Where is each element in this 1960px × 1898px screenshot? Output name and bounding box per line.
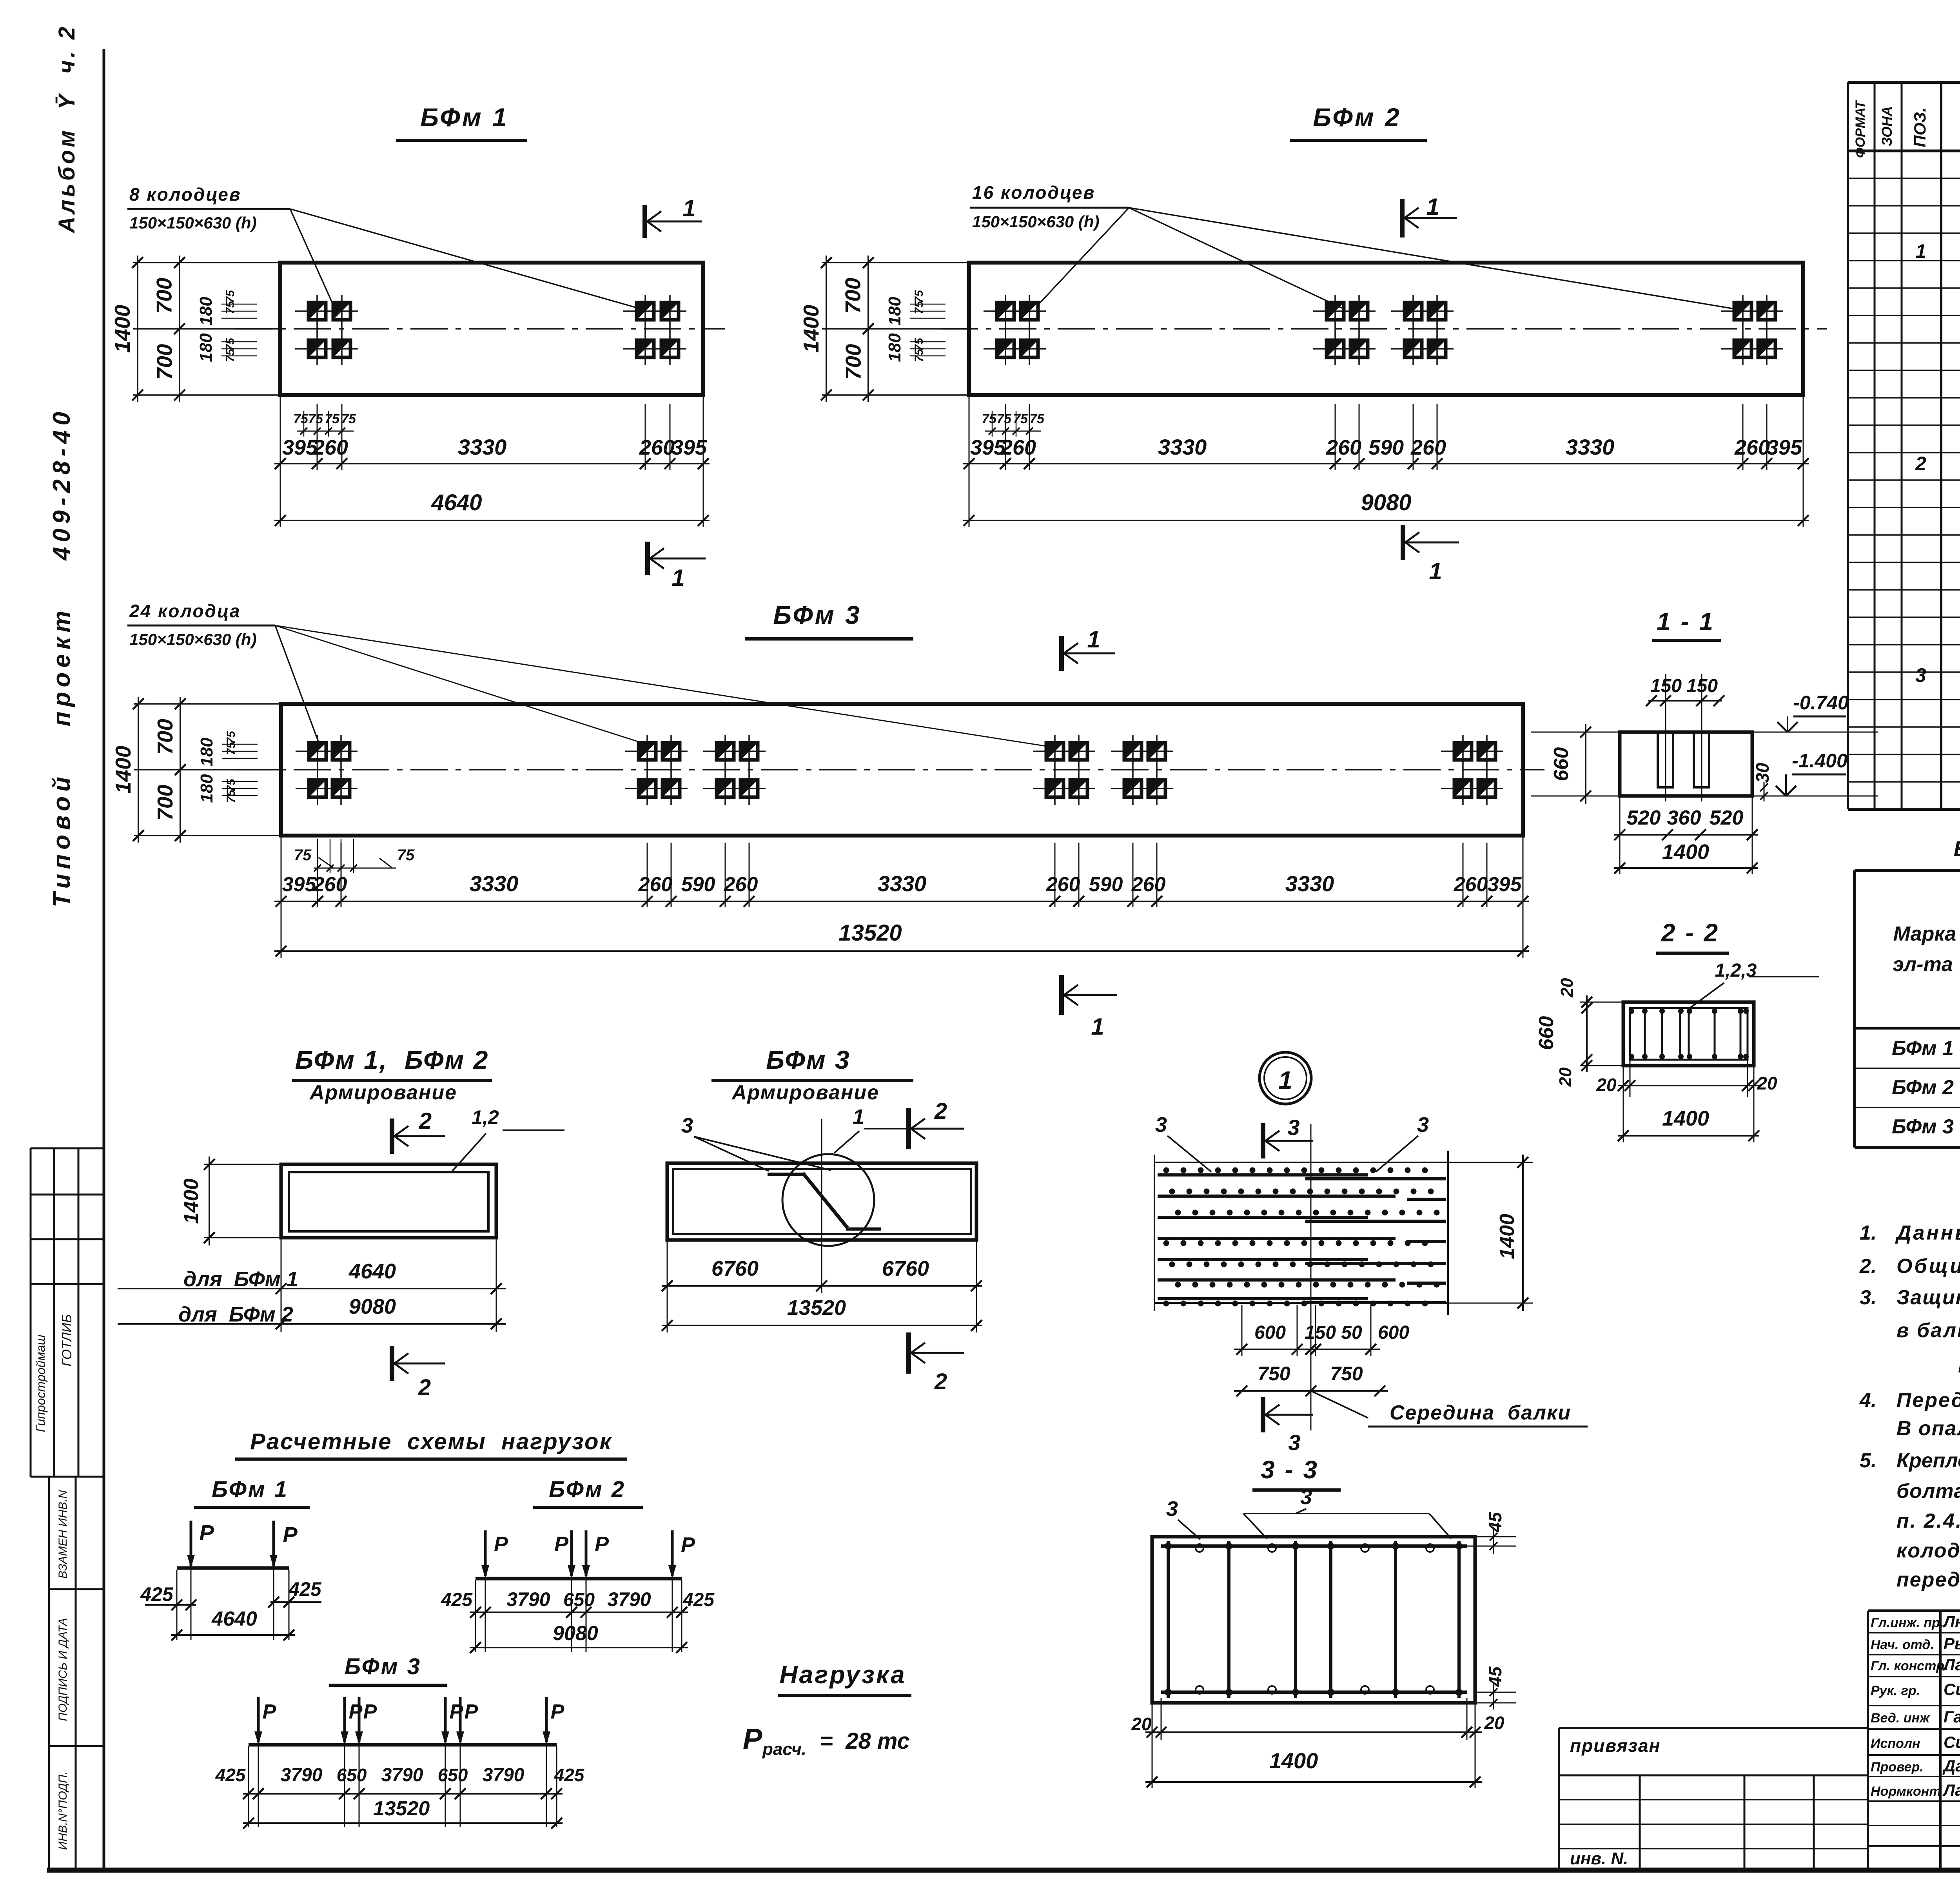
svg-text:3.: 3. bbox=[1860, 1286, 1877, 1309]
svg-text:Альбом Ȳ ч. 2: Альбом Ȳ ч. 2 bbox=[54, 24, 80, 234]
svg-text:БФм 1: БФм 1 bbox=[1892, 1037, 1954, 1060]
svg-text:75: 75 bbox=[397, 847, 415, 864]
svg-text:2: 2 bbox=[1915, 453, 1926, 475]
svg-text:1400: 1400 bbox=[111, 745, 135, 794]
svg-text:590: 590 bbox=[681, 873, 715, 896]
svg-text:150×150×630 (h): 150×150×630 (h) bbox=[129, 214, 257, 232]
svg-text:75: 75 bbox=[1013, 412, 1028, 426]
svg-text:-0.740: -0.740 bbox=[1793, 692, 1849, 714]
svg-text:Армирование: Армирование bbox=[731, 1081, 879, 1104]
svg-text:395: 395 bbox=[282, 873, 317, 896]
svg-text:P: P bbox=[551, 1700, 564, 1723]
svg-text:260: 260 bbox=[639, 436, 675, 459]
svg-text:БФм 1, БФм 2: БФм 1, БФм 2 bbox=[295, 1045, 489, 1074]
svg-text:п. 2.4. Допускается крепление: п. 2.4. Допускается крепление оборудован… bbox=[1896, 1510, 1960, 1532]
svg-text:2: 2 bbox=[934, 1369, 947, 1394]
svg-text:ВЗАМЕН ИНВ.N: ВЗАМЕН ИНВ.N bbox=[56, 1490, 69, 1579]
svg-text:перед бетонированием сверить: перед бетонированием сверить по оборудов… bbox=[1896, 1568, 1960, 1591]
svg-text:1.: 1. bbox=[1860, 1222, 1877, 1244]
svg-text:360: 360 bbox=[1667, 807, 1701, 829]
svg-text:P: P bbox=[554, 1532, 569, 1556]
svg-text:2: 2 bbox=[934, 1099, 947, 1124]
svg-text:ПОЗ.: ПОЗ. bbox=[1911, 107, 1929, 147]
svg-text:150×150×630 (h): 150×150×630 (h) bbox=[129, 630, 257, 649]
svg-text:Синельникова: Синельникова bbox=[1944, 1680, 1960, 1699]
svg-text:1,2,3: 1,2,3 bbox=[1715, 960, 1757, 981]
svg-text:Вед. инж: Вед. инж bbox=[1871, 1711, 1930, 1726]
svg-text:260: 260 bbox=[313, 873, 347, 896]
svg-text:Нагрузка: Нагрузка bbox=[779, 1661, 906, 1689]
svg-text:75: 75 bbox=[224, 301, 237, 314]
svg-text:P: P bbox=[595, 1532, 609, 1556]
svg-text:1: 1 bbox=[1091, 1013, 1104, 1040]
svg-text:590: 590 bbox=[1368, 436, 1404, 459]
svg-text:Исполн: Исполн bbox=[1871, 1736, 1920, 1751]
svg-text:75: 75 bbox=[225, 789, 238, 803]
svg-text:P: P bbox=[743, 1722, 762, 1755]
svg-text:1: 1 bbox=[1429, 558, 1442, 584]
svg-text:260: 260 bbox=[312, 436, 348, 459]
svg-text:3330: 3330 bbox=[470, 871, 519, 896]
svg-text:395: 395 bbox=[671, 436, 707, 459]
svg-text:590: 590 bbox=[1089, 873, 1123, 896]
svg-text:660: 660 bbox=[1550, 747, 1573, 781]
svg-text:425: 425 bbox=[215, 1765, 246, 1785]
svg-text:ИНВ.N°ПОДП.: ИНВ.N°ПОДП. bbox=[56, 1771, 69, 1850]
svg-text:БФм 2: БФм 2 bbox=[549, 1477, 626, 1502]
svg-text:1: 1 bbox=[671, 565, 684, 591]
svg-text:Рыбкина: Рыбкина bbox=[1944, 1634, 1960, 1653]
svg-text:180: 180 bbox=[197, 774, 216, 803]
svg-text:4640: 4640 bbox=[211, 1608, 257, 1630]
svg-text:3330: 3330 bbox=[878, 871, 927, 896]
svg-text:1400: 1400 bbox=[1662, 1107, 1709, 1130]
svg-text:расч.: расч. bbox=[762, 1740, 806, 1759]
svg-text:2: 2 bbox=[419, 1108, 432, 1134]
svg-text:1: 1 bbox=[1915, 240, 1926, 262]
svg-text:1400: 1400 bbox=[110, 305, 134, 353]
svg-text:эл-та: эл-та bbox=[1893, 953, 1953, 976]
svg-text:БФм 1: БФм 1 bbox=[420, 103, 508, 132]
svg-text:180: 180 bbox=[885, 333, 904, 362]
svg-text:425: 425 bbox=[140, 1583, 174, 1605]
svg-text:4640: 4640 bbox=[431, 490, 482, 515]
svg-text:БФм 3: БФм 3 bbox=[1892, 1115, 1954, 1138]
svg-text:Выборка стали на один: Выборка стали на один элемент, кг bbox=[1954, 836, 1960, 861]
svg-text:50: 50 bbox=[1341, 1322, 1362, 1343]
svg-text:9080: 9080 bbox=[349, 1295, 396, 1318]
svg-text:395: 395 bbox=[1767, 436, 1802, 459]
svg-text:24 колодца: 24 колодца bbox=[129, 601, 241, 621]
svg-text:180: 180 bbox=[885, 297, 904, 326]
svg-text:75: 75 bbox=[224, 348, 237, 362]
svg-text:13520: 13520 bbox=[373, 1797, 430, 1820]
svg-text:P: P bbox=[263, 1700, 276, 1723]
svg-text:Данный лист см. совместно: Данный лист см. совместно с л. КЖ8-3 bbox=[1895, 1222, 1960, 1244]
svg-text:Лапкин: Лапкин bbox=[1942, 1781, 1960, 1799]
svg-text:180: 180 bbox=[196, 297, 216, 326]
svg-text:Марка: Марка bbox=[1893, 923, 1956, 945]
svg-text:75: 75 bbox=[294, 847, 312, 864]
svg-text:700: 700 bbox=[153, 785, 177, 821]
svg-text:75: 75 bbox=[225, 741, 238, 755]
svg-text:20: 20 bbox=[1131, 1714, 1152, 1734]
svg-text:4640: 4640 bbox=[348, 1260, 396, 1283]
svg-text:P: P bbox=[199, 1520, 214, 1545]
svg-text:3330: 3330 bbox=[1158, 435, 1207, 459]
svg-text:Лапкин: Лапкин bbox=[1942, 1655, 1960, 1674]
svg-text:180: 180 bbox=[196, 333, 216, 362]
svg-text:30: 30 bbox=[1752, 763, 1773, 783]
svg-text:425: 425 bbox=[554, 1765, 585, 1785]
svg-text:3330: 3330 bbox=[458, 435, 507, 459]
svg-text:700: 700 bbox=[153, 719, 177, 755]
svg-text:3: 3 bbox=[681, 1114, 693, 1137]
svg-text:75: 75 bbox=[341, 412, 356, 426]
svg-text:3: 3 bbox=[1155, 1113, 1167, 1137]
svg-text:1: 1 bbox=[853, 1105, 864, 1129]
svg-text:3: 3 bbox=[1915, 664, 1926, 686]
svg-text:1400: 1400 bbox=[1496, 1214, 1519, 1259]
svg-text:для БФм 2: для БФм 2 bbox=[178, 1303, 293, 1326]
svg-text:260: 260 bbox=[1046, 873, 1080, 896]
svg-text:P: P bbox=[450, 1700, 463, 1723]
svg-text:ЗОНА: ЗОНА bbox=[1879, 106, 1895, 146]
svg-text:75: 75 bbox=[996, 412, 1012, 426]
svg-text:= 28 тс: = 28 тс bbox=[813, 1728, 910, 1754]
svg-text:P: P bbox=[363, 1700, 377, 1723]
svg-text:700: 700 bbox=[152, 277, 176, 314]
svg-text:Провер.: Провер. bbox=[1871, 1760, 1924, 1775]
svg-text:Нач. отд.: Нач. отд. bbox=[1871, 1637, 1934, 1652]
svg-text:20: 20 bbox=[1596, 1075, 1617, 1095]
svg-text:750: 750 bbox=[1330, 1363, 1363, 1385]
svg-text:Гальперина: Гальперина bbox=[1944, 1708, 1960, 1726]
svg-text:Середина балки: Середина балки bbox=[1390, 1401, 1571, 1424]
svg-text:260: 260 bbox=[1454, 873, 1488, 896]
svg-text:1: 1 bbox=[1087, 626, 1100, 653]
svg-text:Типовой проект 409-28-40: Типовой проект 409-28-40 bbox=[48, 407, 75, 907]
svg-text:в балках БФм1, БФм2-39 мм: в балках БФм1, БФм2-39 мм bbox=[1896, 1319, 1960, 1342]
svg-text:P: P bbox=[283, 1522, 298, 1547]
svg-text:16 колодцев: 16 колодцев bbox=[972, 182, 1095, 203]
svg-text:3790: 3790 bbox=[483, 1765, 524, 1786]
svg-text:13520: 13520 bbox=[838, 920, 902, 946]
svg-text:-1.400: -1.400 bbox=[1792, 750, 1847, 772]
svg-text:9080: 9080 bbox=[553, 1622, 598, 1645]
svg-text:Рук. гр.: Рук. гр. bbox=[1871, 1683, 1920, 1698]
svg-text:75: 75 bbox=[293, 412, 309, 426]
svg-text:2: 2 bbox=[418, 1375, 431, 1400]
svg-text:75: 75 bbox=[308, 412, 323, 426]
svg-text:150×150×630 (h): 150×150×630 (h) bbox=[972, 212, 1100, 231]
svg-text:Расчетные схемы нагрузок: Расчетные схемы нагрузок bbox=[250, 1429, 612, 1454]
svg-text:P: P bbox=[349, 1700, 363, 1723]
svg-text:260: 260 bbox=[1734, 436, 1770, 459]
svg-text:75: 75 bbox=[1029, 412, 1045, 426]
svg-text:700: 700 bbox=[841, 277, 865, 314]
svg-text:425: 425 bbox=[441, 1590, 473, 1610]
svg-text:привязан: привязан bbox=[1570, 1735, 1661, 1756]
svg-text:3790: 3790 bbox=[281, 1765, 323, 1786]
svg-text:3: 3 bbox=[1300, 1485, 1312, 1509]
svg-text:260: 260 bbox=[638, 873, 673, 896]
svg-text:1,2: 1,2 bbox=[472, 1106, 499, 1128]
svg-text:9080: 9080 bbox=[1361, 490, 1411, 515]
svg-text:ГОТЛИБ: ГОТЛИБ bbox=[60, 1314, 74, 1366]
svg-text:1 - 1: 1 - 1 bbox=[1657, 607, 1715, 636]
svg-text:6760: 6760 bbox=[711, 1257, 759, 1280]
svg-text:650: 650 bbox=[438, 1765, 468, 1785]
svg-text:660: 660 bbox=[1535, 1016, 1558, 1050]
svg-text:600: 600 bbox=[1378, 1322, 1409, 1343]
svg-text:395: 395 bbox=[1488, 873, 1522, 896]
svg-text:1400: 1400 bbox=[1269, 1748, 1318, 1773]
svg-text:75: 75 bbox=[913, 348, 926, 362]
svg-text:20: 20 bbox=[1557, 978, 1577, 997]
svg-text:1: 1 bbox=[682, 195, 695, 221]
svg-text:БФм 3: БФм 3 bbox=[773, 600, 861, 629]
svg-text:20: 20 bbox=[1556, 1067, 1575, 1087]
svg-text:75: 75 bbox=[325, 412, 340, 426]
svg-text:Крепление оборудования к фунда: Крепление оборудования к фундаментным ба… bbox=[1896, 1449, 1960, 1472]
svg-text:БФм3, - 37 мм: БФм3, - 37 мм bbox=[1896, 1354, 1960, 1377]
svg-text:БФм 1: БФм 1 bbox=[212, 1477, 289, 1502]
svg-text:520: 520 bbox=[1710, 807, 1744, 829]
svg-text:3: 3 bbox=[1287, 1115, 1299, 1140]
svg-text:260: 260 bbox=[1326, 436, 1361, 459]
svg-text:4.: 4. bbox=[1859, 1389, 1877, 1412]
svg-text:3330: 3330 bbox=[1566, 435, 1615, 459]
svg-text:3: 3 bbox=[1166, 1497, 1178, 1521]
svg-text:150: 150 bbox=[1305, 1322, 1336, 1343]
svg-text:700: 700 bbox=[152, 344, 177, 380]
svg-text:Симакова: Симакова bbox=[1944, 1733, 1960, 1751]
svg-text:180: 180 bbox=[197, 738, 216, 767]
svg-text:Давыдова: Давыдова bbox=[1942, 1757, 1960, 1775]
svg-text:Гл.инж. пр.: Гл.инж. пр. bbox=[1871, 1615, 1944, 1630]
svg-text:600: 600 bbox=[1254, 1322, 1286, 1343]
svg-text:P: P bbox=[494, 1532, 508, 1556]
svg-text:Нормконт: Нормконт bbox=[1871, 1784, 1941, 1799]
svg-text:8 колодцев: 8 колодцев bbox=[129, 184, 241, 205]
svg-text:13520: 13520 bbox=[787, 1296, 846, 1320]
svg-text:2.: 2. bbox=[1859, 1255, 1877, 1278]
svg-text:3790: 3790 bbox=[381, 1765, 423, 1786]
svg-text:75: 75 bbox=[982, 412, 997, 426]
svg-text:ПОДПИСЬ И ДАТА: ПОДПИСЬ И ДАТА bbox=[56, 1618, 69, 1721]
svg-text:3: 3 bbox=[1288, 1430, 1300, 1455]
svg-text:1400: 1400 bbox=[1662, 840, 1709, 864]
svg-text:650: 650 bbox=[337, 1765, 367, 1785]
svg-text:45: 45 bbox=[1485, 1512, 1505, 1533]
svg-text:20: 20 bbox=[1484, 1713, 1504, 1733]
svg-text:1400: 1400 bbox=[799, 305, 823, 353]
svg-text:20: 20 bbox=[1757, 1073, 1777, 1093]
svg-text:1400: 1400 bbox=[180, 1178, 203, 1224]
svg-text:колодцы, показанные на данно: колодцы, показанные на данном чертеже. Р… bbox=[1896, 1539, 1960, 1562]
svg-text:6760: 6760 bbox=[882, 1257, 929, 1280]
svg-text:260: 260 bbox=[1410, 436, 1446, 459]
svg-text:P: P bbox=[465, 1700, 478, 1723]
svg-text:1: 1 bbox=[1426, 194, 1439, 220]
svg-text:Перед установкой пространстве: Перед установкой пространственных каркас… bbox=[1896, 1389, 1960, 1412]
svg-text:700: 700 bbox=[841, 344, 866, 380]
svg-text:750: 750 bbox=[1258, 1363, 1290, 1385]
svg-text:75: 75 bbox=[913, 301, 926, 314]
svg-text:3790: 3790 bbox=[607, 1588, 651, 1610]
svg-text:болтами, соединенными с бето: болтами, соединенными с бетоном на эпокс… bbox=[1896, 1480, 1960, 1503]
svg-text:260: 260 bbox=[724, 873, 758, 896]
svg-text:3330: 3330 bbox=[1285, 871, 1334, 896]
svg-text:3 - 3: 3 - 3 bbox=[1261, 1456, 1319, 1484]
svg-text:45: 45 bbox=[1485, 1666, 1505, 1687]
svg-text:260: 260 bbox=[1131, 873, 1166, 896]
svg-text:Гл. констр.: Гл. констр. bbox=[1871, 1659, 1948, 1673]
svg-text:Армирование: Армирование bbox=[309, 1081, 457, 1104]
svg-text:Гипростроймаш: Гипростроймаш bbox=[34, 1335, 48, 1432]
svg-text:P: P bbox=[681, 1533, 695, 1557]
svg-text:2 - 2: 2 - 2 bbox=[1661, 919, 1719, 947]
svg-text:В опалубку балки БФм3 прои: В опалубку балки БФм3 произвести их укру… bbox=[1896, 1417, 1960, 1440]
svg-text:Общие указания см. лист КЖ8: Общие указания см. лист КЖ8-1 bbox=[1896, 1255, 1960, 1278]
svg-text:520: 520 bbox=[1627, 807, 1661, 829]
svg-text:Защитный слой бетона до ра: Защитный слой бетона до рабочей арматуры… bbox=[1896, 1286, 1960, 1309]
svg-text:3: 3 bbox=[1417, 1113, 1429, 1137]
svg-text:инв. N.: инв. N. bbox=[1570, 1849, 1628, 1868]
svg-text:БФм 3: БФм 3 bbox=[766, 1045, 850, 1074]
svg-text:БФм 2: БФм 2 bbox=[1892, 1076, 1954, 1099]
svg-text:3790: 3790 bbox=[506, 1588, 550, 1610]
svg-text:Любавин: Любавин bbox=[1942, 1612, 1960, 1631]
svg-text:БФм 2: БФм 2 bbox=[1313, 103, 1401, 132]
svg-text:БФм 3: БФм 3 bbox=[345, 1654, 421, 1679]
svg-text:260: 260 bbox=[1000, 436, 1036, 459]
svg-text:1: 1 bbox=[1278, 1066, 1292, 1094]
svg-text:ФОРМАТ: ФОРМАТ bbox=[1853, 100, 1868, 158]
svg-text:5.: 5. bbox=[1860, 1449, 1877, 1472]
